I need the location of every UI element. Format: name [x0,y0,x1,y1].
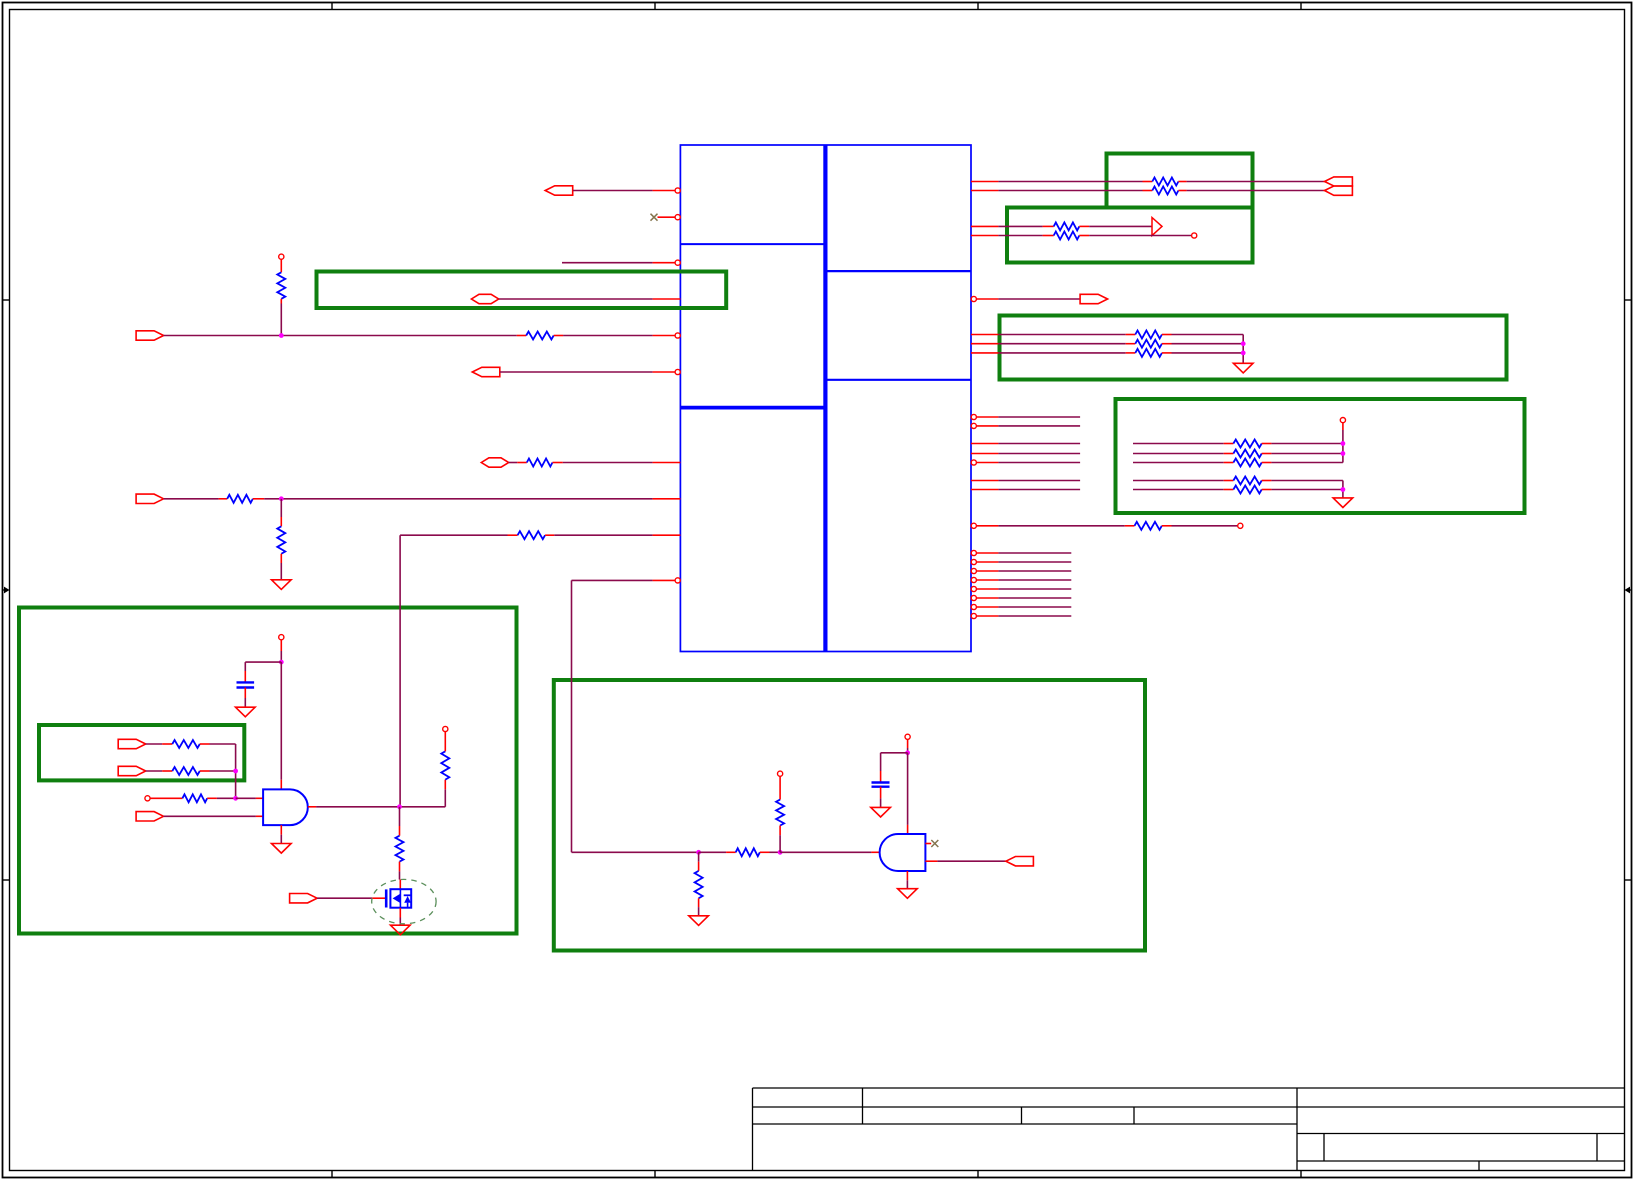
resistor R17 [1233,450,1261,458]
pin lead U1 right y190 [971,190,998,192]
port P5 hex [481,458,508,467]
pin lead U1 left y462 [653,462,681,464]
resistor R17 left lead [1224,453,1234,455]
junction [1341,487,1346,492]
port P2 [136,331,164,340]
resistor R16 left lead [1224,443,1234,445]
junction [233,796,238,801]
pin lead U1 left y217 [658,216,676,218]
wire [1172,343,1244,345]
port P14 [1006,857,1034,866]
resistor R4 right lead [1079,225,1089,227]
wire [572,579,653,581]
highlight box H1 [1107,154,1253,208]
resistor R12 left lead [508,534,518,536]
pin lead U1 right y462 [976,462,998,464]
border center mark left [3,587,10,594]
pin bubble [971,568,976,573]
pin lead U1 right y226 [971,225,998,227]
pin bubble [971,414,976,419]
pin lead U1 left y372 [653,371,676,373]
wire [1172,352,1244,354]
wire [998,416,1080,418]
pin bubble [971,296,976,301]
pin bubble [675,578,680,583]
wire [146,743,163,745]
junction [1341,441,1346,446]
wire [500,371,653,373]
resistor R21 [1135,522,1162,530]
wire [998,334,1125,336]
junction [279,333,284,338]
resistor R24 [182,794,207,802]
ground [391,925,411,935]
resistor R15 right lead [1162,352,1172,354]
resistor R13 left lead [1126,334,1136,336]
resistor R19 [1233,477,1261,485]
pin lead U1 left y335 [653,335,676,337]
wire [280,563,282,580]
junction [778,850,783,855]
resistor R19 right lead [1262,480,1272,482]
resistor R27 [736,848,760,856]
AND gate U2 top pin [280,780,282,790]
resistor R23 left lead [162,770,172,772]
highlight box H4 [1000,316,1507,380]
AND gate U2 input 1 lead [256,797,263,799]
AND gate U2 [263,789,308,825]
border center mark right [1625,587,1632,594]
resistor R2 left lead [1143,190,1153,192]
wire [699,851,727,853]
wire [698,852,700,861]
resistor R1 [1152,178,1178,186]
highlight box H5 [1116,399,1525,513]
pin lead U1 left y580 [653,579,676,581]
pin bubble [971,523,976,528]
MOSFET Q1 [386,889,411,908]
MOSFET Q1 source lead [399,908,401,918]
resistor R8 [526,332,553,340]
capacitor C1 bottom lead [244,688,246,699]
resistor R12 right lead [545,534,554,536]
resistor R1 left lead [1143,181,1153,183]
wire [573,190,653,192]
junction [1241,351,1246,356]
IC U1 left divider 2 [680,406,825,410]
resistor R20 [1233,486,1261,494]
resistor R14 right lead [1162,343,1172,345]
resistor R19 left lead [1224,480,1234,482]
resistor R3 [277,272,285,299]
AND gate U3 [880,834,926,871]
AND gate U2 bottom pin [280,825,282,835]
wire [907,753,909,825]
wire [164,335,517,337]
pin lead U1 right y343 [971,343,998,345]
junction [1341,451,1346,456]
ground [236,707,256,717]
resistor R16 right lead [1262,443,1272,445]
resistor R4 left lead [1043,225,1054,227]
lead [1342,423,1344,430]
ground [272,580,292,590]
junction [397,804,402,809]
pin lead U1 right y553 [976,552,998,554]
resistor R11 bottom lead [280,554,282,563]
wire [399,807,401,826]
resistor R29 bottom lead [779,826,781,836]
resistor R11 top lead [280,517,282,526]
wire [998,597,1071,599]
pin lead U1 left y299 [653,298,681,300]
wire [998,525,1124,527]
off-page connector flag A [1325,177,1353,186]
pin lead U1 right y235 [971,235,998,237]
resistor R16 [1233,440,1261,448]
wire [998,480,1080,482]
wire [998,225,1042,227]
resistor R28 [695,871,703,898]
port P1 [545,186,573,195]
wire [400,534,507,536]
wire [264,498,652,500]
IC U1 center bar [823,145,827,652]
wire [880,798,882,807]
wire [1187,190,1325,192]
port P12 [136,812,164,821]
wire [509,462,518,464]
wire [998,552,1071,554]
ground [272,844,292,854]
wire [998,343,1125,345]
wire [998,352,1125,354]
IC U1 right divider 2 [825,379,971,381]
wire [399,871,401,879]
resistor R15 [1135,349,1162,357]
junction [279,660,284,665]
lead [907,739,909,748]
resistor R23 [172,767,199,775]
pin bubble [675,188,680,193]
resistor R29 [776,800,784,826]
wire [280,835,282,844]
resistor R26 bottom lead [399,862,401,872]
wire [998,425,1080,427]
pin lead U1 right y598 [976,597,998,599]
wire [280,651,282,662]
ground [1233,363,1253,373]
MOSFET highlight ellipse [372,879,436,923]
resistor R14 [1135,340,1162,348]
open end circle [1238,523,1243,528]
power pin circle [905,734,910,739]
lead [444,780,446,790]
wire [217,797,236,799]
wire [210,743,236,745]
port P4 [472,367,500,376]
wire [1133,462,1224,464]
open end circle [1192,233,1197,238]
off-page connector flag B [1325,186,1353,195]
pin bubble [971,595,976,600]
resistor R2 right lead [1178,190,1186,192]
wire [563,335,653,337]
ground [1333,498,1353,508]
pin lead U1 right y589 [976,588,998,590]
wire [1133,453,1224,455]
pin lead U1 left y535 [653,534,681,536]
wire [235,744,237,798]
resistor R21 right lead [1162,525,1172,527]
wire [937,860,1006,862]
wire [1342,481,1344,498]
pin lead U1 right y571 [976,570,998,572]
pin lead U1 right y352 [971,352,998,354]
power pin circle [1340,418,1345,423]
wire [1271,453,1343,455]
pin lead U1 right y616 [976,615,998,617]
resistor R28 top lead [698,862,700,871]
wire [572,851,699,853]
wire [210,770,236,772]
pin bubble [971,604,976,609]
ground [689,916,709,926]
wire [880,753,882,771]
resistor R15 left lead [1126,352,1136,354]
pin lead U1 left y498 [653,498,681,500]
IC U1 right divider 1 [825,270,971,272]
resistor R10 left lead [219,498,228,500]
wire [998,443,1080,445]
highlight box H3 [317,272,727,309]
resistor R20 left lead [1224,489,1234,491]
resistor R17 right lead [1262,453,1272,455]
MOSFET Q1 gate lead [372,897,386,899]
capacitor C1 top lead [244,671,246,682]
wire [1271,489,1343,491]
wire [399,918,401,926]
power pin circle [443,726,448,731]
resistor R13 [1135,331,1162,339]
pin bubble [971,550,976,555]
resistor R5 right lead [1079,235,1089,237]
resistor R28 bottom lead [698,898,700,907]
wire [1187,181,1325,183]
AND gate U3 aux output lead [925,843,931,845]
highlight box H8 [554,680,1145,951]
resistor R14 left lead [1126,343,1136,345]
wire [998,453,1080,455]
junction [905,750,910,755]
pin lead U1 right y607 [976,606,998,608]
wire [779,835,781,852]
resistor R13 right lead [1162,334,1172,336]
wire [146,770,163,772]
resistor R9 left lead [517,462,527,464]
wire [1172,334,1244,336]
power pin circle [778,771,783,776]
pin lead U1 right y453 [971,453,998,455]
junction [1241,341,1246,346]
resistor R8 right lead [554,335,563,337]
AND gate U2 input 2 lead [256,815,263,817]
pin lead U1 right y417 [976,416,998,418]
port P7 [1080,294,1108,303]
wire [998,462,1080,464]
resistor R24 right lead [207,797,217,799]
junction [279,496,284,501]
wire [563,462,653,464]
port P3 hex [471,294,498,303]
resistor R21 left lead [1125,525,1135,527]
pin bubble [971,613,976,618]
wire [998,181,1142,183]
wire [317,897,372,899]
resistor R25 bottom lead [444,789,446,807]
clock triangle [1152,218,1162,236]
resistor R5 left lead [1043,235,1054,237]
pin bubble [675,215,680,220]
wire [1271,480,1343,482]
wire [244,662,246,671]
capacitor C2 [872,783,890,787]
resistor R1 right lead [1178,181,1186,183]
wire [1172,525,1238,527]
resistor R24 left lead [150,797,182,799]
wire [998,570,1071,572]
wire [698,907,700,916]
pin lead U1 left y190 [653,190,676,192]
wire [881,752,908,754]
power pin circle [279,635,284,640]
resistor R18 [1233,459,1261,467]
pin lead U1 right y489 [971,489,998,491]
resistor R25 [441,751,449,779]
resistor R18 left lead [1224,462,1234,464]
wire [998,235,1042,237]
resistor R29 top lead [779,776,781,799]
AND gate U3 bottom pin [906,871,908,880]
no-connect X [651,214,658,221]
resistor R26 [396,836,404,862]
highlight box H7 [39,725,244,780]
port P6 [136,494,164,503]
pin lead U1 left y262 [653,262,676,264]
resistor R27 right lead [760,851,770,853]
wire [1089,225,1152,227]
pin lead U1 right y580 [976,579,998,581]
pin lead U1 right y334 [971,334,998,336]
pin lead U1 right y299 [976,298,998,300]
wire [280,499,282,517]
pin bubble [971,460,976,465]
port P11 [118,766,146,775]
resistor R22 right lead [200,743,210,745]
ground [898,889,918,899]
wire [780,851,871,853]
wire [1342,430,1344,463]
pin lead U1 right y525 [976,525,998,527]
resistor R2 [1152,187,1178,195]
resistor R11 [277,526,285,553]
pin bubble [675,333,680,338]
lead [280,640,282,651]
wire [998,298,1079,300]
wire [770,851,781,853]
IC U1 outline [680,145,971,652]
wire [998,606,1071,608]
wire [236,797,256,799]
resistor R4 [1054,222,1080,230]
pin bubble [971,577,976,582]
resistor R22 [172,740,199,748]
resistor R5 [1054,232,1080,240]
wire [998,190,1142,192]
wire [1089,235,1191,237]
AND gate U3 input lead [871,851,879,853]
wire [1242,335,1244,364]
pin lead U1 right y181 [971,181,998,183]
AND gate U3 output lead [925,860,937,862]
wire [1133,480,1224,482]
capacitor C2 bottom lead [880,787,882,799]
pin lead U1 right y480 [971,480,998,482]
wire [280,304,282,336]
wire [244,698,246,707]
wire [998,588,1071,590]
wire [399,535,401,807]
resistor R22 left lead [162,743,172,745]
highlight box H6 [19,608,517,934]
wire [280,662,282,780]
wire [245,661,281,663]
resistor R10 [227,495,253,503]
resistor R10 right lead [253,498,264,500]
resistor R27 left lead [726,851,736,853]
ground [871,807,891,817]
IC U1 left divider 1 [680,243,825,245]
no-connect X [931,840,938,847]
wire [1133,443,1224,445]
wire [998,561,1071,563]
pin bubble [971,559,976,564]
junction [233,769,238,774]
AND gate U2 output lead [308,806,316,808]
wire [998,615,1071,617]
resistor R3 bottom lead [280,299,282,304]
wire [1271,443,1343,445]
pin bubble [971,423,976,428]
resistor R3 top lead [280,259,282,272]
pin bubble [675,260,680,265]
resistor R8 left lead [517,335,526,337]
pin lead U1 right y443 [971,443,998,445]
wire [562,262,653,264]
wire [998,579,1071,581]
pin bubble [675,369,680,374]
resistor R9 [527,459,553,467]
wire [571,580,573,852]
capacitor C1 [237,682,255,687]
title block [753,1088,1625,1171]
wire [164,815,256,817]
MOSFET Q1 drain lead [399,880,401,890]
wire [554,534,652,536]
wire [906,880,908,888]
port P13 [290,894,318,903]
wire [499,298,653,300]
